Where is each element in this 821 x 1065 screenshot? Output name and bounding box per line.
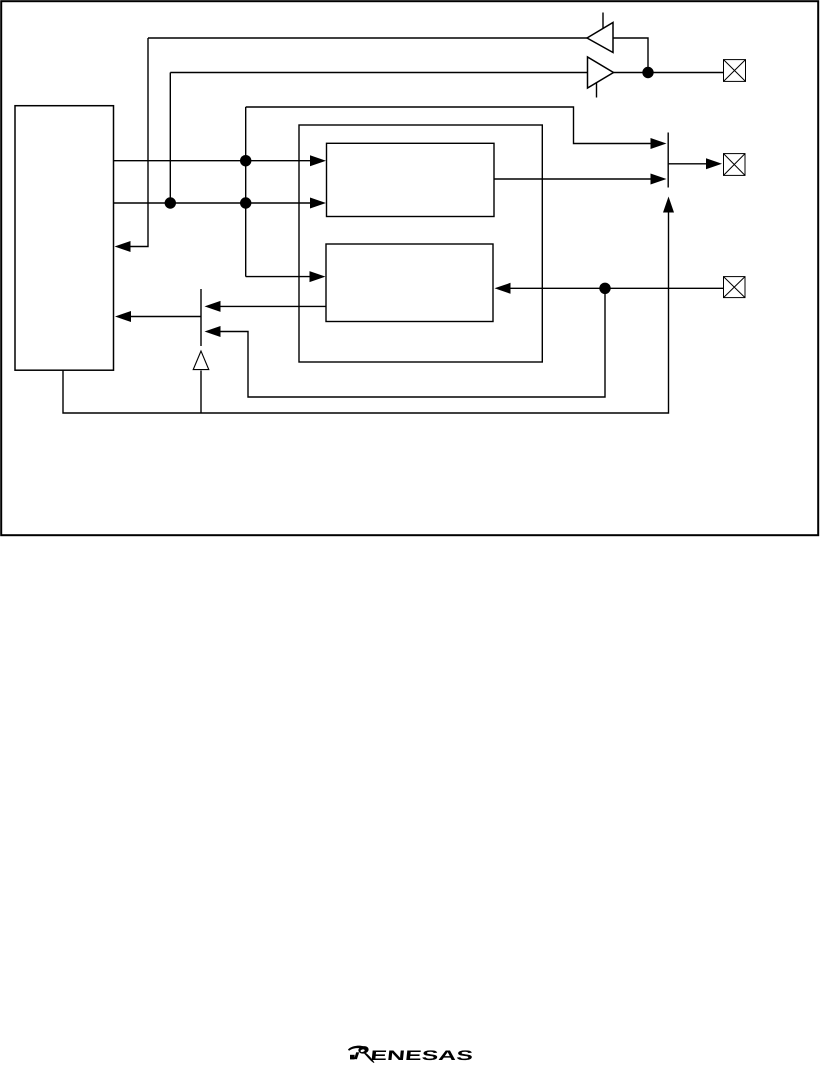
svg-text:ENESAS: ENESAS [370,1047,474,1063]
